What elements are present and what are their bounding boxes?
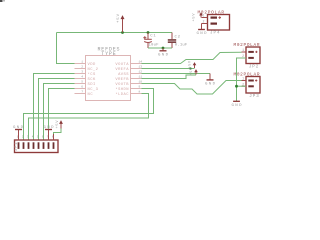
- connector JP3: [234, 72, 261, 99]
- svg-text:C1: C1: [150, 35, 156, 39]
- svg-text:NC_3: NC_3: [88, 88, 99, 92]
- svg-text:GND: GND: [44, 126, 55, 130]
- pin 9 !SHDN: [115, 85, 141, 92]
- IC U1 (DAC symbol box with REFDES/TYPE placeholders): [86, 47, 131, 101]
- svg-text:JP2: JP2: [249, 66, 259, 70]
- wire JP1 pin8 to +5V: [54, 129, 62, 135]
- svg-text:2: 2: [203, 19, 205, 23]
- svg-text:13: 13: [139, 65, 143, 68]
- svg-text:8: 8: [139, 90, 141, 93]
- svg-text:+5V: +5V: [192, 13, 196, 22]
- wire JP2-2/JP3-2 to ground: [237, 58, 247, 101]
- svg-text:10: 10: [139, 80, 143, 83]
- pin 14 VOUTA: [115, 60, 142, 67]
- svg-text:GND: GND: [197, 32, 208, 36]
- ground GND2 (JP1 pin 7): [44, 126, 55, 130]
- svg-text:SCK: SCK: [88, 78, 97, 82]
- wire SCK to JP1-5: [39, 79, 75, 141]
- wire AVSS to gnd: [142, 73, 211, 75]
- svg-text:6: 6: [81, 85, 83, 88]
- connector JP2: [234, 43, 261, 70]
- wire !LDAC to JP1-3: [29, 94, 149, 141]
- svg-text:7: 7: [81, 90, 83, 93]
- pin 4 SCK: [75, 75, 97, 82]
- wire VOUTA to JP2-1: [142, 52, 242, 63]
- wire NC_3 to ground JP1-7: [49, 89, 75, 129]
- svg-text:+5V: +5V: [190, 67, 194, 75]
- pin 7 NC: [75, 90, 94, 97]
- svg-text:C2: C2: [175, 35, 181, 39]
- capacitor C1: [143, 33, 159, 49]
- svg-text:*CS: *CS: [88, 72, 97, 77]
- svg-text:VREFB: VREFB: [115, 78, 129, 82]
- JP1 pads 1-8: [18, 142, 55, 149]
- supply +5V VREFB: [190, 67, 198, 75]
- pin 1 VDD: [75, 60, 97, 67]
- pin 6 NC_3: [75, 85, 99, 92]
- JP1 pin stubs: [19, 130, 54, 141]
- connector JP1: [15, 140, 59, 153]
- svg-text:11: 11: [139, 75, 143, 78]
- pin 8 !LDAC: [115, 90, 141, 97]
- svg-text:5: 5: [81, 80, 83, 83]
- wire cap bottom loop: [148, 47, 172, 49]
- pin 13 VREFA: [115, 65, 142, 72]
- ground GND1 (JP1 pin 1): [13, 126, 24, 130]
- capacitor C2: [168, 33, 188, 49]
- wire SDI to JP1-6: [44, 84, 75, 141]
- junction dot JP3-2: [235, 85, 238, 88]
- pin 5 SDI: [75, 80, 96, 87]
- svg-text:TYPE: TYPE: [101, 51, 116, 57]
- svg-text:JP3: JP3: [249, 95, 259, 99]
- ground (caps): [158, 48, 169, 58]
- supply +5V P1: [117, 13, 125, 32]
- svg-text:VDD: VDD: [88, 63, 97, 67]
- ground (AVSS): [205, 74, 216, 87]
- svg-text:VOUTB: VOUTB: [115, 83, 129, 87]
- pin 12 AVSS: [118, 70, 142, 77]
- pin 3 !CS: [75, 70, 97, 77]
- svg-text:3: 3: [81, 70, 83, 73]
- svg-text:1: 1: [203, 13, 205, 17]
- svg-text:2: 2: [81, 65, 83, 68]
- svg-text:GND: GND: [232, 104, 243, 108]
- svg-text:14: 14: [139, 60, 143, 63]
- svg-text:1: 1: [242, 48, 244, 52]
- wire VREFA: [142, 68, 195, 70]
- junction dot caps/gnd: [162, 47, 165, 50]
- svg-text:+5V: +5V: [117, 13, 121, 23]
- supply +5V (JP1): [56, 120, 63, 129]
- svg-text:NC_2: NC_2: [88, 68, 99, 72]
- junction dot rail/P1: [121, 31, 124, 34]
- svg-text:VOUTA: VOUTA: [115, 63, 129, 67]
- supply +5V VREFA: [189, 60, 197, 68]
- svg-text:AVSS: AVSS: [118, 73, 129, 77]
- wire VREFB: [142, 75, 197, 79]
- svg-text:10uF: 10uF: [149, 43, 160, 47]
- svg-text:+5V: +5V: [56, 120, 60, 129]
- svg-text:*LDAC: *LDAC: [115, 92, 129, 97]
- svg-text:9: 9: [139, 85, 141, 88]
- svg-text:GND: GND: [13, 126, 24, 130]
- svg-text:*SHDN: *SHDN: [115, 87, 128, 92]
- corner artifact: [0, 0, 5, 2]
- svg-text:SDI: SDI: [88, 83, 96, 87]
- svg-text:NC: NC: [88, 93, 94, 97]
- wire +5V rail top: [57, 33, 173, 64]
- junction dot rail/C1: [147, 31, 150, 34]
- JP1 pin numbers: [17, 136, 54, 139]
- svg-text:12: 12: [139, 70, 143, 73]
- wire !CS to JP1-4: [34, 74, 75, 141]
- supply +5V (JP4): [192, 12, 203, 21]
- svg-text:GND: GND: [205, 83, 216, 87]
- ground (JP2/JP3): [232, 101, 243, 108]
- svg-text:4: 4: [81, 75, 83, 78]
- svg-text:VREFA: VREFA: [115, 68, 129, 72]
- junction dot VREFA: [189, 67, 191, 69]
- svg-text:0.1uF: 0.1uF: [175, 44, 188, 48]
- ground (JP4 pin2): [197, 24, 208, 37]
- pin 11 VREFB: [115, 75, 142, 82]
- svg-text:JP4: JP4: [210, 32, 220, 36]
- pin 10 VOUTB: [115, 80, 142, 87]
- svg-text:1: 1: [81, 60, 83, 63]
- svg-text:+5V: +5V: [189, 60, 193, 68]
- connector JP4: [198, 11, 230, 36]
- pin 2 NC_2: [75, 65, 99, 72]
- wire !SHDN to JP1-2: [24, 89, 154, 141]
- svg-text:1: 1: [242, 77, 244, 81]
- wire VOUTB to JP3-1: [142, 81, 242, 95]
- svg-text:GND: GND: [158, 54, 169, 58]
